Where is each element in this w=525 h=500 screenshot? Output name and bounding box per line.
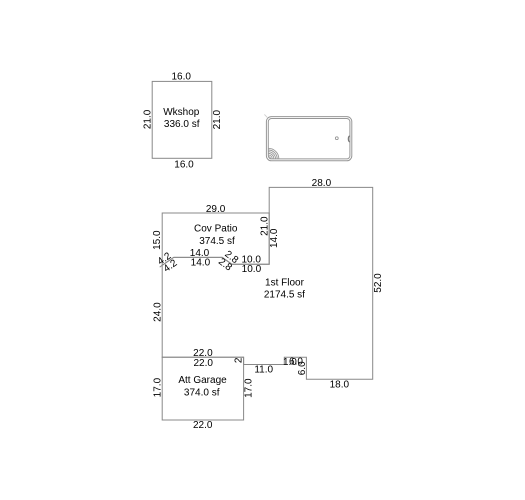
1st floor outline (162, 187, 373, 379)
label 15.0 (152, 230, 163, 250)
svg-text:22.0: 22.0 (193, 420, 213, 431)
label 22.0 garage top below (193, 358, 213, 369)
label 6.0 vertical (297, 361, 308, 375)
label 17.0 garage left (152, 377, 163, 397)
pool steps arcs (268, 148, 279, 159)
svg-text:11.0: 11.0 (254, 365, 273, 376)
pool outer shell (266, 117, 351, 161)
label 10.0 above (241, 255, 261, 266)
svg-text:14.0: 14.0 (269, 228, 280, 248)
label 11.0 (254, 365, 273, 376)
svg-text:374.5 sf: 374.5 sf (199, 236, 235, 247)
wkshop outline (152, 81, 212, 158)
pool inner shell (268, 119, 350, 159)
label 29.0 (206, 204, 226, 215)
label 374.5 sf (199, 236, 235, 247)
label 14.0 above (190, 248, 210, 259)
att garage outline (162, 357, 243, 420)
label 24.0 (152, 302, 163, 322)
label 21.0 first floor left (260, 216, 271, 236)
svg-text:16.0: 16.0 (174, 159, 194, 170)
svg-text:Cov Patio: Cov Patio (194, 224, 238, 235)
label 2.8 upper (222, 249, 240, 266)
svg-text:14.0: 14.0 (191, 257, 211, 268)
label 374.0 sf (184, 388, 220, 399)
svg-text:1st Floor: 1st Floor (265, 277, 305, 288)
label 14.0 below (191, 257, 211, 268)
label 28.0 (312, 178, 332, 189)
svg-text:15.0: 15.0 (152, 230, 163, 250)
svg-text:21.0: 21.0 (212, 110, 223, 130)
label Att Garage (178, 375, 227, 386)
svg-text:17.0: 17.0 (152, 377, 163, 397)
label 2174.5 sf (264, 290, 305, 301)
label 4.2 upper (156, 250, 174, 267)
label 336.0 sf (164, 119, 200, 130)
svg-text:52.0: 52.0 (373, 273, 384, 293)
label 17.0 garage right (244, 378, 255, 398)
svg-text:Att Garage: Att Garage (178, 375, 227, 386)
label 21.0 wkshop left (143, 109, 154, 129)
pool drain circle (335, 137, 338, 140)
label 6.0 horizontal (289, 357, 303, 368)
label Wkshop (163, 107, 200, 118)
label 18.0 (330, 379, 350, 390)
pool corner tick (264, 114, 267, 118)
label 22.0 garage top above (193, 348, 213, 359)
svg-text:29.0: 29.0 (206, 204, 226, 215)
svg-text:374.0 sf: 374.0 sf (184, 388, 220, 399)
pool skimmer notch (348, 136, 349, 142)
label Cov Patio (194, 224, 238, 235)
label 21.0 wkshop right (212, 110, 223, 130)
label 1st Floor (265, 277, 305, 288)
label 52.0 (373, 273, 384, 293)
label 16.0 wkshop bottom (174, 159, 194, 170)
label 10.0 below (242, 264, 262, 275)
label 14.0 patio right (269, 228, 280, 248)
label 2 step left (234, 357, 245, 363)
svg-text:Wkshop: Wkshop (163, 107, 200, 118)
label 2.8 lower (216, 256, 234, 273)
svg-text:16.0: 16.0 (171, 72, 191, 83)
wire diagonal overshoot at patio corner (160, 265, 163, 267)
svg-text:18.0: 18.0 (330, 379, 350, 390)
svg-text:28.0: 28.0 (312, 178, 332, 189)
svg-text:24.0: 24.0 (152, 302, 163, 322)
svg-text:21.0: 21.0 (143, 109, 154, 129)
svg-text:336.0 sf: 336.0 sf (164, 119, 200, 130)
svg-text:2: 2 (234, 357, 245, 363)
svg-text:2174.5 sf: 2174.5 sf (264, 290, 305, 301)
svg-text:6.0: 6.0 (297, 361, 308, 375)
label 1.0 step right (283, 357, 297, 368)
svg-text:17.0: 17.0 (244, 378, 255, 398)
cov patio outline (162, 213, 269, 265)
svg-text:10.0: 10.0 (242, 264, 262, 275)
label 22.0 garage bottom (193, 420, 213, 431)
svg-text:22.0: 22.0 (193, 358, 213, 369)
label 4.2 lower (162, 258, 180, 275)
label 16.0 wkshop top (171, 72, 191, 83)
